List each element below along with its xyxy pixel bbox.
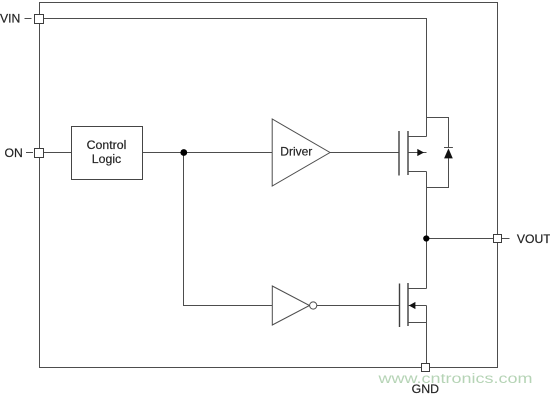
svg-text:VIN: VIN (0, 12, 20, 26)
svg-text:www.cntronics.com: www.cntronics.com (377, 371, 532, 386)
svg-text:Control: Control (87, 138, 127, 152)
svg-text:VOUT: VOUT (517, 232, 550, 246)
svg-text:Driver: Driver (280, 145, 312, 159)
svg-text:ON: ON (5, 146, 23, 160)
svg-text:Logic: Logic (92, 152, 121, 166)
svg-text:GND: GND (412, 382, 439, 395)
